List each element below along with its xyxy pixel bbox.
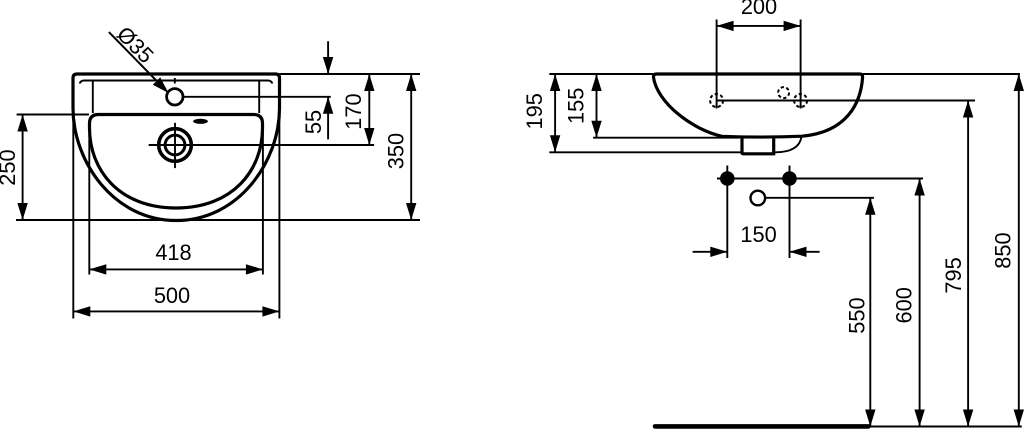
dim 155 extension bottom [593, 137, 739, 139]
dim 500 arrow right [262, 306, 279, 316]
dim 200 arrow left [717, 21, 734, 31]
leader line O35 [109, 32, 166, 90]
dim 250 extension top [17, 114, 89, 116]
dim 500 extension left [72, 110, 74, 319]
dim 850 arrow up [1014, 74, 1024, 91]
dim 850 arrow down [1014, 410, 1024, 427]
fixing hole right (dashed) [794, 94, 807, 107]
svg-text:200: 200 [741, 0, 777, 19]
fixing holes centreline [717, 100, 975, 102]
dim 195 arrow up [550, 74, 560, 91]
svg-text:55: 55 [301, 110, 326, 134]
svg-text:250: 250 [0, 149, 20, 185]
dim 550 line [869, 198, 871, 427]
dim 150 arrow right-pointing-left [790, 247, 807, 257]
dim 418 extension right [262, 130, 264, 275]
wall bolt left [720, 171, 735, 186]
drain vertical centreline [174, 123, 176, 168]
dim 200 arrow right [784, 21, 801, 31]
svg-text:795: 795 [941, 257, 966, 293]
drain outer circle [159, 129, 192, 162]
dim 418 line [89, 268, 263, 270]
rim inner side line right [258, 82, 260, 114]
svg-text:418: 418 [155, 240, 191, 265]
svg-text:Ø35: Ø35 [112, 21, 159, 68]
front view basin profile [653, 74, 862, 137]
dim 55 arrow down [323, 57, 333, 74]
rim back edge detail line [80, 81, 273, 84]
dim 200 line [717, 25, 801, 27]
basin inner bowl (top view) [90, 115, 263, 209]
svg-text:850: 850 [991, 232, 1016, 268]
dim 170 line [368, 74, 370, 145]
svg-text:550: 550 [845, 297, 870, 333]
overflow hole (dashed) [778, 87, 789, 98]
tap hole [167, 89, 183, 105]
dim 195 arrow down [550, 135, 560, 152]
dim 195 line [554, 74, 556, 152]
dim 500 line [73, 310, 279, 312]
bolts centreline [717, 178, 923, 180]
drain inner circle [165, 135, 185, 155]
dim 600 line [919, 179, 921, 427]
dim 795 line [967, 101, 969, 427]
svg-text:170: 170 [341, 93, 366, 129]
dim 150 left segment [693, 251, 728, 253]
svg-text:155: 155 [563, 88, 588, 124]
fixing hole left (dashed) [710, 94, 723, 107]
dim 600 arrow up [914, 179, 924, 196]
svg-text:150: 150 [740, 222, 776, 247]
trap body [742, 139, 774, 154]
dim 250 arrow up [17, 115, 27, 132]
wall bolt right [782, 171, 797, 186]
dim 418 extension left [88, 135, 90, 275]
dim 155 arrow up [591, 74, 601, 91]
dim 150 right segment [790, 251, 820, 253]
dim 550 arrow down [865, 410, 875, 427]
dim 795 arrow down [963, 410, 973, 427]
svg-text:350: 350 [384, 133, 409, 169]
dim 170 arrow up [364, 74, 374, 91]
outlet hole [751, 191, 766, 206]
top edge extension right [863, 73, 1020, 75]
fixing hole left vertical [716, 20, 718, 109]
dim 600 arrow down [914, 410, 924, 427]
overflow slot [193, 119, 208, 124]
fixing hole right vertical [800, 20, 802, 109]
top edge extension right [280, 73, 421, 75]
bolt left vertical [726, 166, 728, 259]
dim 195 extension bottom [549, 151, 742, 153]
dim 500 arrow left [73, 306, 90, 316]
basin outer rim (top view) [73, 74, 280, 221]
dim 850 line [1018, 74, 1020, 427]
dim 55 upper stub [327, 41, 329, 74]
dim 170 arrow down [364, 128, 374, 145]
svg-text:600: 600 [892, 287, 917, 323]
dim 155 line [596, 74, 598, 138]
dim 55 arrow up [323, 97, 333, 114]
drain horizontal centreline [149, 144, 374, 146]
baseline under top view [16, 219, 420, 221]
outlet centreline [765, 197, 874, 199]
rim inner side line left [92, 82, 94, 114]
dim 500 extension right [278, 110, 280, 319]
svg-text:500: 500 [154, 283, 190, 308]
trap outer curve [775, 137, 802, 153]
dim 418 arrow right [246, 264, 263, 274]
dim 550 arrow up [865, 198, 875, 215]
dim 250 arrow down [17, 203, 27, 220]
dim 250 line [22, 115, 24, 221]
dim 350 line [410, 74, 412, 220]
top edge extension left [549, 73, 653, 75]
dim 55 lower stub [327, 97, 329, 140]
dim 150 arrow left-pointing-right [710, 247, 727, 257]
dim 350 arrow down [406, 203, 416, 220]
floor line thick [655, 424, 869, 429]
floor line thin [869, 426, 1022, 428]
svg-text:195: 195 [522, 93, 547, 129]
dim 418 arrow left [89, 264, 106, 274]
tap hole centreline [183, 96, 331, 98]
dim 350 arrow up [406, 74, 416, 91]
dim 795 arrow up [963, 101, 973, 118]
rim centre tick [174, 78, 176, 84]
dim 155 arrow down [591, 121, 601, 138]
bolt right vertical [789, 166, 791, 259]
leader arrowhead [153, 77, 169, 93]
